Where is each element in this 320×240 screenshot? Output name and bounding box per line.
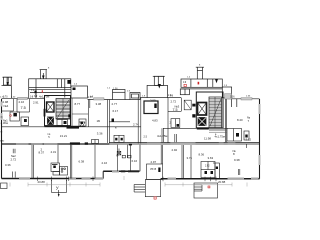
svg-text:8.77: 8.77 xyxy=(75,102,81,106)
svg-text:3.71: 3.71 xyxy=(187,156,193,160)
svg-text:2.92: 2.92 xyxy=(172,148,178,152)
svg-text:4.31: 4.31 xyxy=(51,150,57,154)
svg-text:2.16: 2.16 xyxy=(19,100,25,104)
svg-text:№1: №1 xyxy=(3,119,8,123)
svg-text:1Б: 1Б xyxy=(97,119,101,123)
svg-text:б): б) xyxy=(1,116,3,119)
svg-text:3.36: 3.36 xyxy=(230,97,235,99)
svg-text:2.5: 2.5 xyxy=(144,136,148,139)
svg-text:6.38: 6.38 xyxy=(79,160,85,164)
svg-text:20.88: 20.88 xyxy=(218,180,226,184)
svg-text:6.17: 6.17 xyxy=(113,109,119,113)
svg-text:8.37: 8.37 xyxy=(39,151,45,155)
svg-text:4x1,75м: 4x1,75м xyxy=(39,95,49,99)
svg-text:2.77: 2.77 xyxy=(112,102,118,106)
svg-text:У: У xyxy=(56,186,59,191)
svg-text:11.98: 11.98 xyxy=(204,136,211,140)
svg-text:2.97: 2.97 xyxy=(151,160,157,164)
svg-text:2.16: 2.16 xyxy=(102,161,108,165)
svg-text:УВ 05: УВ 05 xyxy=(150,169,157,171)
svg-text:20.88: 20.88 xyxy=(38,180,46,184)
svg-text:0.36: 0.36 xyxy=(5,163,11,167)
svg-text:№4: №4 xyxy=(4,104,9,108)
svg-text:2.99: 2.99 xyxy=(150,99,156,103)
svg-text:3.63: 3.63 xyxy=(208,156,214,160)
svg-text:2.74: 2.74 xyxy=(133,123,139,127)
svg-text:к): к) xyxy=(1,131,3,134)
svg-text:8.40: 8.40 xyxy=(237,118,243,122)
svg-text:7.5: 7.5 xyxy=(21,106,26,110)
svg-text:3.12: 3.12 xyxy=(246,138,252,142)
svg-text:2.72: 2.72 xyxy=(11,158,17,162)
svg-text:4x1,75м: 4x1,75м xyxy=(157,134,167,138)
svg-text:9.38: 9.38 xyxy=(234,158,240,162)
svg-text:3.36: 3.36 xyxy=(97,132,103,136)
svg-text:4.83: 4.83 xyxy=(152,119,158,123)
svg-text:2.91: 2.91 xyxy=(33,101,39,105)
svg-text:6.16: 6.16 xyxy=(132,159,138,163)
svg-text:2.72: 2.72 xyxy=(171,100,177,104)
svg-text:3.38: 3.38 xyxy=(96,102,102,106)
svg-text:1.36: 1.36 xyxy=(113,89,118,91)
svg-text:13.21: 13.21 xyxy=(60,134,68,138)
svg-text:2.92: 2.92 xyxy=(205,166,210,168)
svg-text:8.36: 8.36 xyxy=(199,152,205,156)
